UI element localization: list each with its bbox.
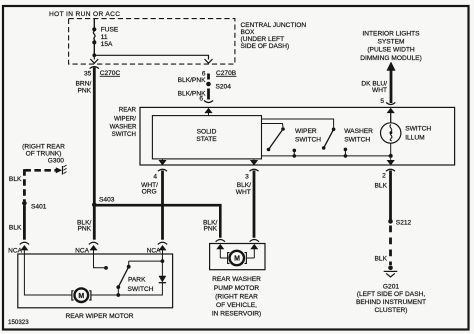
wire BLK dashed to G300	[24, 169, 56, 172]
wire BLK/PNK upper	[207, 74, 210, 80]
solid state module box	[152, 116, 261, 159]
rear wiper/washer switch box U1	[140, 107, 455, 165]
svg-text:150323: 150323	[8, 319, 29, 326]
connector NCA right	[158, 242, 167, 244]
svg-text:BLK: BLK	[375, 182, 388, 189]
diode D1	[159, 276, 166, 283]
wire BLK/PNK lower	[207, 89, 210, 100]
svg-text:WASHER: WASHER	[110, 124, 137, 131]
wire WHT/ORG	[161, 171, 164, 240]
connector NCA middle	[89, 242, 98, 244]
svg-text:6: 6	[199, 96, 203, 103]
svg-text:OF VEHICLE,: OF VEHICLE,	[216, 302, 257, 309]
svg-text:IN RESERVOIR): IN RESERVOIR)	[212, 311, 261, 318]
connector label C270B	[216, 70, 237, 77]
svg-text:11: 11	[101, 34, 108, 41]
wire BLK upper	[389, 171, 392, 222]
connector chevron at switch pin 6	[204, 101, 213, 103]
wire pump internal right	[247, 257, 254, 259]
splice S212	[388, 219, 393, 224]
central junction box (dashed)	[69, 19, 235, 65]
svg-text:SWITCH: SWITCH	[112, 131, 136, 138]
svg-text:15A: 15A	[101, 41, 113, 48]
svg-text:WASHER: WASHER	[344, 128, 373, 135]
ground G300	[56, 165, 67, 175]
connector label C270C	[100, 70, 121, 77]
svg-text:SWITCH: SWITCH	[405, 125, 431, 132]
svg-text:WIPER: WIPER	[295, 128, 317, 135]
svg-text:4: 4	[153, 173, 157, 180]
svg-text:INTERIOR LIGHTS: INTERIOR LIGHTS	[362, 30, 420, 37]
svg-text:S403: S403	[99, 196, 115, 203]
svg-text:DIMMING MODULE): DIMMING MODULE)	[360, 55, 422, 62]
svg-text:BRN/: BRN/	[76, 81, 92, 88]
svg-text:REAR: REAR	[119, 106, 137, 113]
wire BLK/PNK middle	[93, 205, 96, 240]
node junction in fuse box	[92, 53, 96, 57]
connector NCA left	[20, 242, 29, 244]
svg-text:PNK: PNK	[77, 226, 91, 233]
connector chevron at switch pin 5	[386, 103, 395, 105]
svg-text:WHT: WHT	[236, 189, 251, 196]
svg-text:(RIGHT REAR: (RIGHT REAR	[215, 293, 258, 300]
svg-text:PNK: PNK	[77, 88, 91, 95]
label RIGHT REAR OF TRUNK	[22, 144, 65, 165]
svg-text:BLK/PNK: BLK/PNK	[178, 77, 206, 84]
svg-text:SWITCH: SWITCH	[344, 137, 370, 144]
wire diode to motor	[91, 283, 162, 295]
rear wiper motor box M1	[18, 254, 173, 308]
wire BLK dashed to ground	[389, 226, 392, 266]
motor M washer pump	[228, 251, 247, 265]
svg-text:3: 3	[245, 173, 249, 180]
wire BLK to wiper motor	[23, 205, 26, 240]
pin 2 exit arrow	[387, 158, 394, 165]
label REAR WIPER/WASHER SWITCH	[110, 106, 137, 138]
wiper switch SW1	[267, 127, 296, 158]
svg-text:SYSTEM: SYSTEM	[377, 38, 404, 45]
svg-text:(PULSE WIDTH: (PULSE WIDTH	[367, 47, 414, 54]
wire WHT/ORG into motor box	[161, 254, 163, 276]
svg-text:OF TRUNK): OF TRUNK)	[26, 150, 62, 157]
svg-text:S212: S212	[396, 219, 412, 226]
svg-text:REAR WIPER MOTOR: REAR WIPER MOTOR	[65, 313, 133, 320]
svg-text:ORG: ORG	[142, 189, 157, 196]
ground G201	[384, 265, 398, 277]
pin 3 exit arrow	[251, 159, 258, 165]
svg-text:(UNDER LEFT: (UNDER LEFT	[241, 36, 285, 43]
splice S204	[206, 82, 211, 87]
svg-text:FUSE: FUSE	[101, 26, 119, 33]
arrow into switch pin 5	[387, 108, 394, 112]
washer switch SW2	[322, 128, 347, 158]
interior lights label	[360, 30, 422, 61]
svg-text:SWITCH: SWITCH	[128, 286, 154, 293]
node diode junction	[161, 259, 165, 263]
wire solid state to washer switch (upper)	[262, 119, 334, 128]
svg-text:S401: S401	[31, 204, 47, 211]
connector chevron washer pump left	[216, 240, 225, 242]
rear washer pump motor box M2	[210, 244, 265, 270]
svg-text:BLK: BLK	[9, 225, 22, 232]
svg-text:S204: S204	[216, 84, 232, 91]
svg-text:5: 5	[380, 98, 384, 105]
svg-text:HOT IN RUN OR ACC: HOT IN RUN OR ACC	[49, 11, 120, 18]
splice S401	[22, 201, 27, 206]
splice S403	[92, 203, 97, 208]
wire pump internal left	[220, 257, 227, 259]
svg-text:SIDE OF DASH): SIDE OF DASH)	[241, 43, 290, 50]
svg-text:ILLUM: ILLUM	[405, 135, 424, 142]
svg-text:BLK: BLK	[9, 176, 22, 183]
svg-text:M: M	[234, 256, 240, 263]
wire BLK/WHT	[253, 171, 256, 238]
svg-text:STATE: STATE	[196, 136, 217, 143]
connector chevron washer pump right	[250, 240, 259, 242]
svg-text:2: 2	[382, 173, 386, 180]
node park switch run contact	[104, 266, 108, 270]
wire BLK/PNK to park switch contact	[94, 254, 105, 268]
wire park switch to diode junction	[129, 260, 163, 262]
label REAR WASHER PUMP MOTOR	[212, 276, 261, 317]
svg-text:M: M	[78, 293, 84, 300]
svg-text:SOLID: SOLID	[197, 129, 217, 136]
fuse F11 15A	[92, 26, 119, 48]
node motor to park switch	[116, 293, 120, 297]
wire branch S403 to washer pump	[94, 205, 220, 238]
park switch	[116, 261, 130, 295]
pin 4 exit arrow	[159, 159, 166, 165]
wire fuse to junction	[93, 42, 95, 55]
wire fuse feed stub	[93, 19, 95, 29]
svg-text:BLK: BLK	[375, 255, 388, 262]
svg-text:G201: G201	[383, 283, 399, 290]
wire internal bus to C270B drop	[94, 55, 208, 59]
svg-text:BOX: BOX	[241, 29, 256, 36]
svg-text:SWITCH: SWITCH	[295, 137, 321, 144]
motor M rear wiper	[72, 288, 91, 302]
wire solid state to wiper switch (lower)	[262, 124, 284, 128]
svg-text:WIPER/: WIPER/	[114, 115, 136, 122]
wire DK BLU/WHT to interior lights with arrow	[390, 70, 393, 103]
arrow into pump left	[217, 245, 223, 249]
svg-text:BEHIND INSTRUMENT: BEHIND INSTRUMENT	[356, 299, 426, 306]
svg-text:CENTRAL JUNCTION: CENTRAL JUNCTION	[241, 22, 307, 29]
connector C270C exit arrow	[90, 59, 98, 63]
wire switch common bus	[262, 155, 391, 157]
svg-text:CLUSTER): CLUSTER)	[375, 307, 408, 314]
svg-text:REAR WASHER: REAR WASHER	[212, 276, 261, 283]
svg-text:35: 35	[84, 70, 92, 77]
svg-text:G300: G300	[48, 158, 64, 165]
svg-text:PUMP MOTOR: PUMP MOTOR	[214, 285, 259, 292]
lamp switch illumination	[381, 112, 401, 155]
svg-text:(LEFT SIDE OF DASH,: (LEFT SIDE OF DASH,	[357, 291, 426, 298]
svg-text:PARK: PARK	[128, 276, 146, 283]
wire stub to C270C arrow	[93, 55, 95, 59]
svg-text:NCA: NCA	[8, 247, 23, 254]
arrow into switch pin 6	[205, 108, 212, 112]
arrow into pump right	[251, 245, 257, 249]
svg-text:PNK: PNK	[203, 226, 217, 233]
wire BRN/PNK	[93, 68, 96, 205]
svg-text:WHT: WHT	[372, 87, 387, 94]
wire ground inside motor box	[24, 254, 71, 295]
node bus to lamp	[389, 154, 393, 158]
svg-text:NCA: NCA	[75, 247, 90, 254]
connector C270B exit arrow	[205, 59, 213, 63]
